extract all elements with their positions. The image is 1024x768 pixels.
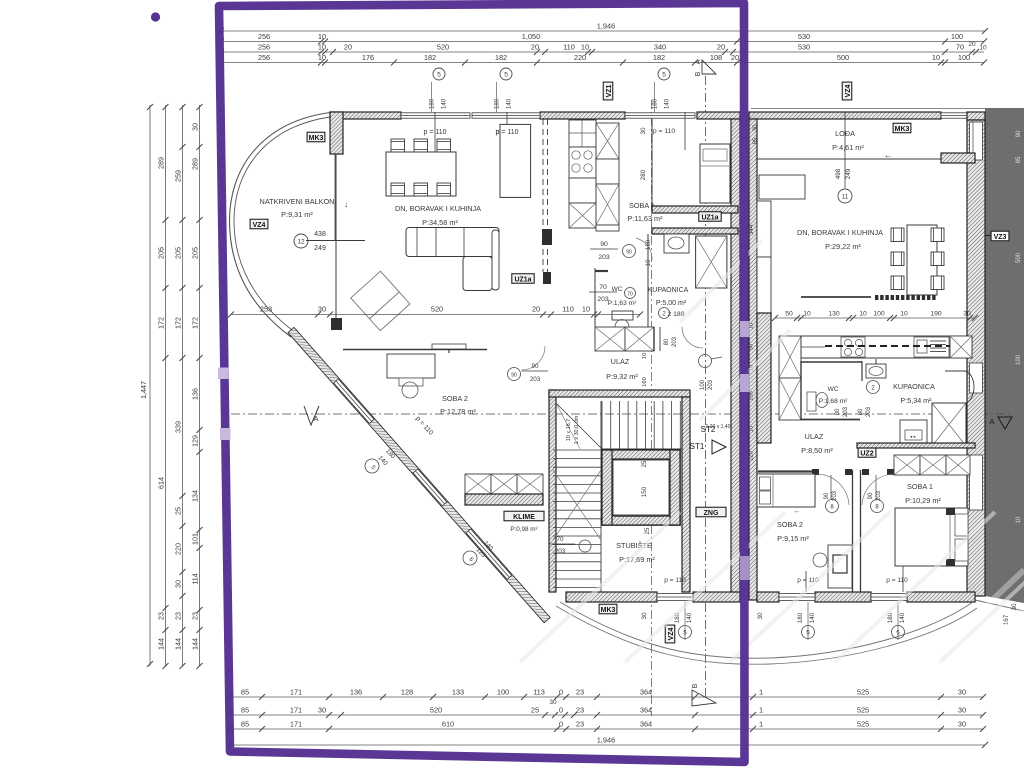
svg-text:203: 203 bbox=[555, 548, 566, 555]
svg-text:10: 10 bbox=[932, 53, 940, 62]
svg-text:1 x 30,0 dm: 1 x 30,0 dm bbox=[574, 415, 580, 444]
svg-text:P:9,15 m²: P:9,15 m² bbox=[777, 534, 809, 543]
svg-text:WC: WC bbox=[828, 386, 839, 393]
svg-text:128: 128 bbox=[401, 688, 413, 697]
svg-text:289: 289 bbox=[156, 157, 165, 169]
svg-text:30: 30 bbox=[640, 127, 647, 135]
svg-text:1: 1 bbox=[759, 688, 763, 697]
svg-text:253: 253 bbox=[260, 305, 272, 314]
svg-text:100: 100 bbox=[497, 688, 509, 697]
svg-text:203: 203 bbox=[672, 336, 678, 347]
svg-text:20: 20 bbox=[717, 43, 725, 52]
svg-text:p = 110: p = 110 bbox=[653, 128, 676, 135]
svg-text:10: 10 bbox=[749, 426, 755, 432]
svg-text:340: 340 bbox=[654, 43, 666, 52]
svg-text:140: 140 bbox=[899, 612, 906, 623]
svg-text:90: 90 bbox=[600, 241, 608, 248]
svg-text:70: 70 bbox=[556, 536, 564, 543]
svg-text:VZ4: VZ4 bbox=[253, 222, 266, 229]
svg-text:498: 498 bbox=[835, 168, 842, 179]
svg-text:80: 80 bbox=[664, 338, 670, 345]
svg-text:80: 80 bbox=[858, 408, 864, 415]
svg-text:30: 30 bbox=[1011, 603, 1018, 611]
svg-text:50: 50 bbox=[749, 344, 755, 350]
svg-text:1: 1 bbox=[759, 706, 763, 715]
svg-text:249: 249 bbox=[845, 168, 852, 179]
svg-text:203: 203 bbox=[598, 254, 610, 261]
svg-text:144: 144 bbox=[190, 638, 199, 650]
svg-text:108: 108 bbox=[710, 53, 722, 62]
svg-text:80: 80 bbox=[835, 408, 841, 415]
svg-text:B: B bbox=[695, 71, 702, 76]
svg-text:114: 114 bbox=[190, 573, 199, 584]
svg-text:180: 180 bbox=[652, 98, 659, 109]
svg-text:144: 144 bbox=[173, 638, 182, 650]
svg-text:ULAZ: ULAZ bbox=[611, 357, 630, 366]
svg-text:11: 11 bbox=[842, 194, 849, 201]
svg-text:A: A bbox=[989, 417, 994, 426]
svg-text:171: 171 bbox=[290, 688, 302, 697]
svg-text:289: 289 bbox=[190, 158, 199, 170]
svg-text:20: 20 bbox=[731, 53, 739, 62]
svg-text:610: 610 bbox=[442, 720, 454, 729]
svg-text:136: 136 bbox=[190, 388, 199, 400]
svg-text:ULAZ: ULAZ bbox=[805, 432, 824, 441]
svg-text:SOBA 2: SOBA 2 bbox=[442, 394, 468, 403]
svg-text:100: 100 bbox=[958, 53, 970, 62]
svg-text:30: 30 bbox=[958, 688, 966, 697]
svg-text:10: 10 bbox=[581, 43, 589, 52]
svg-text:113: 113 bbox=[533, 688, 545, 697]
svg-text:140: 140 bbox=[506, 98, 513, 109]
svg-text:364: 364 bbox=[640, 688, 652, 697]
svg-text:30: 30 bbox=[757, 612, 764, 620]
svg-text:30: 30 bbox=[190, 123, 199, 131]
svg-text:1,447: 1,447 bbox=[139, 381, 148, 399]
svg-text:50: 50 bbox=[785, 311, 793, 318]
svg-text:P:11,63 m²: P:11,63 m² bbox=[627, 214, 663, 223]
svg-text:171: 171 bbox=[290, 720, 302, 729]
svg-text:0: 0 bbox=[559, 720, 563, 729]
svg-text:129: 129 bbox=[190, 435, 199, 447]
svg-text:90: 90 bbox=[531, 363, 539, 370]
svg-text:P:5,34 m²: P:5,34 m² bbox=[900, 396, 932, 405]
svg-text:100: 100 bbox=[1016, 354, 1022, 365]
svg-text:182: 182 bbox=[424, 53, 436, 62]
svg-text:10: 10 bbox=[979, 45, 987, 52]
svg-text:10: 10 bbox=[646, 259, 652, 266]
svg-text:171: 171 bbox=[290, 706, 302, 715]
svg-text:120: 120 bbox=[749, 451, 755, 461]
svg-text:23: 23 bbox=[576, 688, 584, 697]
svg-text:10 x 16,7: 10 x 16,7 bbox=[566, 419, 572, 442]
svg-text:172: 172 bbox=[156, 317, 165, 329]
svg-text:10: 10 bbox=[900, 311, 908, 318]
svg-text:30: 30 bbox=[958, 720, 966, 729]
svg-text:70: 70 bbox=[956, 43, 964, 52]
svg-text:500: 500 bbox=[837, 53, 849, 62]
svg-text:MK3: MK3 bbox=[309, 135, 324, 142]
svg-text:30: 30 bbox=[753, 124, 759, 131]
svg-text:SOBA 1: SOBA 1 bbox=[907, 482, 933, 491]
svg-text:A: A bbox=[695, 59, 702, 64]
svg-text:280: 280 bbox=[640, 169, 647, 180]
svg-text:23: 23 bbox=[190, 612, 199, 620]
svg-text:100: 100 bbox=[951, 32, 963, 41]
svg-text:130: 130 bbox=[828, 311, 840, 318]
svg-text:1,946: 1,946 bbox=[597, 736, 616, 745]
svg-text:256: 256 bbox=[258, 53, 270, 62]
svg-text:150: 150 bbox=[641, 486, 648, 497]
svg-text:203: 203 bbox=[708, 379, 714, 390]
svg-text:259: 259 bbox=[173, 170, 182, 182]
svg-text:KUPAONICA: KUPAONICA bbox=[893, 382, 935, 391]
svg-text:176: 176 bbox=[362, 53, 374, 62]
svg-text:203: 203 bbox=[597, 296, 609, 303]
svg-text:B: B bbox=[692, 683, 699, 688]
svg-text:155: 155 bbox=[749, 391, 755, 401]
svg-text:NATKRIVENI BALKON: NATKRIVENI BALKON bbox=[260, 197, 335, 206]
svg-text:70: 70 bbox=[599, 284, 607, 291]
svg-text:VZ4: VZ4 bbox=[668, 627, 675, 640]
svg-text:KLIME: KLIME bbox=[513, 514, 535, 521]
svg-text:90: 90 bbox=[868, 492, 874, 499]
svg-text:P:10,29 m²: P:10,29 m² bbox=[905, 496, 941, 505]
svg-text:525: 525 bbox=[857, 688, 869, 697]
svg-text:5: 5 bbox=[662, 72, 666, 79]
svg-text:VZ1: VZ1 bbox=[606, 84, 613, 97]
svg-text:85: 85 bbox=[1016, 156, 1022, 163]
svg-text:10: 10 bbox=[642, 353, 648, 359]
svg-text:DN, BORAVAK I KUHINJA: DN, BORAVAK I KUHINJA bbox=[395, 204, 481, 213]
svg-text:ZNG: ZNG bbox=[704, 510, 719, 517]
svg-text:P:5,00 m²: P:5,00 m² bbox=[656, 300, 687, 307]
svg-text:UZ1a: UZ1a bbox=[514, 276, 531, 283]
svg-text:P:8,50 m²: P:8,50 m² bbox=[801, 446, 833, 455]
svg-text:220: 220 bbox=[574, 53, 586, 62]
svg-text:1,946: 1,946 bbox=[597, 22, 616, 31]
svg-text:30: 30 bbox=[958, 706, 966, 715]
svg-text:530: 530 bbox=[798, 43, 810, 52]
svg-text:203: 203 bbox=[843, 406, 849, 417]
svg-text:10: 10 bbox=[582, 305, 590, 314]
svg-text:90: 90 bbox=[824, 492, 830, 499]
svg-text:85: 85 bbox=[241, 688, 249, 697]
svg-text:140: 140 bbox=[809, 612, 816, 623]
svg-text:23: 23 bbox=[576, 706, 584, 715]
svg-text:UZ1a: UZ1a bbox=[701, 214, 718, 221]
svg-text:20: 20 bbox=[531, 43, 539, 52]
svg-text:180: 180 bbox=[797, 612, 804, 623]
svg-text:25: 25 bbox=[173, 507, 182, 515]
svg-text:30: 30 bbox=[963, 311, 971, 318]
svg-text:10: 10 bbox=[1016, 516, 1022, 523]
svg-text:344: 344 bbox=[748, 224, 755, 235]
svg-text:5: 5 bbox=[504, 72, 508, 79]
svg-text:364: 364 bbox=[640, 720, 652, 729]
svg-text:110: 110 bbox=[562, 305, 574, 314]
svg-text:70: 70 bbox=[627, 292, 633, 298]
svg-text:30: 30 bbox=[173, 580, 182, 588]
svg-text:10: 10 bbox=[803, 311, 811, 318]
svg-text:85: 85 bbox=[241, 720, 249, 729]
svg-text:203: 203 bbox=[530, 376, 541, 383]
svg-text:12: 12 bbox=[297, 239, 305, 246]
svg-text:5: 5 bbox=[437, 72, 441, 79]
svg-text:205: 205 bbox=[156, 247, 165, 259]
svg-text:↓: ↓ bbox=[344, 200, 348, 209]
svg-text:MK3: MK3 bbox=[895, 126, 910, 133]
svg-text:205: 205 bbox=[173, 247, 182, 259]
svg-text:P:9,31 m²: P:9,31 m² bbox=[281, 210, 313, 219]
svg-text:←: ← bbox=[794, 508, 801, 515]
svg-text:182: 182 bbox=[653, 53, 665, 62]
svg-text:23: 23 bbox=[173, 612, 182, 620]
svg-text:220: 220 bbox=[173, 543, 182, 555]
svg-text:256: 256 bbox=[258, 32, 270, 41]
svg-text:P:1,63 m²: P:1,63 m² bbox=[608, 300, 637, 307]
svg-text:525: 525 bbox=[857, 720, 869, 729]
svg-text:85: 85 bbox=[753, 137, 759, 144]
svg-text:90: 90 bbox=[626, 250, 632, 256]
svg-text:10: 10 bbox=[859, 311, 867, 318]
svg-text:134: 134 bbox=[190, 490, 199, 502]
svg-text:140: 140 bbox=[441, 98, 448, 109]
svg-text:90: 90 bbox=[1016, 130, 1022, 137]
svg-text:614: 614 bbox=[156, 477, 165, 489]
svg-text:140: 140 bbox=[664, 98, 671, 109]
svg-text:525: 525 bbox=[857, 706, 869, 715]
svg-text:2 180: 2 180 bbox=[667, 311, 684, 318]
svg-text:p = 110: p = 110 bbox=[664, 577, 686, 584]
svg-text:VZ4: VZ4 bbox=[845, 84, 852, 97]
svg-text:p = 110: p = 110 bbox=[886, 577, 908, 584]
svg-text:30: 30 bbox=[641, 612, 648, 620]
svg-text:VZ3: VZ3 bbox=[994, 234, 1007, 241]
svg-text:110: 110 bbox=[563, 43, 575, 52]
svg-text:◄►: ◄► bbox=[909, 434, 917, 439]
svg-text:100: 100 bbox=[873, 311, 885, 318]
svg-text:25: 25 bbox=[642, 460, 648, 467]
svg-text:520: 520 bbox=[437, 43, 449, 52]
svg-text:P:29,22 m²: P:29,22 m² bbox=[825, 242, 861, 251]
svg-text:101: 101 bbox=[190, 533, 199, 545]
svg-text:30: 30 bbox=[318, 706, 326, 715]
svg-text:85: 85 bbox=[241, 706, 249, 715]
svg-text:0: 0 bbox=[559, 706, 563, 715]
svg-text:180: 180 bbox=[494, 98, 501, 109]
svg-text:P:0,98 m²: P:0,98 m² bbox=[510, 526, 537, 533]
svg-text:10: 10 bbox=[318, 53, 326, 62]
svg-text:520: 520 bbox=[431, 305, 443, 314]
svg-text:180: 180 bbox=[429, 98, 436, 109]
svg-text:133: 133 bbox=[452, 688, 464, 697]
svg-text:520: 520 bbox=[430, 706, 442, 715]
svg-text:SOBA 2: SOBA 2 bbox=[777, 520, 803, 529]
svg-text:256: 256 bbox=[258, 43, 270, 52]
svg-text:MK3: MK3 bbox=[601, 607, 616, 614]
svg-text:1,050: 1,050 bbox=[522, 32, 541, 41]
svg-text:20: 20 bbox=[968, 41, 976, 48]
svg-text:172: 172 bbox=[190, 317, 199, 329]
svg-text:136: 136 bbox=[350, 688, 362, 697]
svg-text:UZ2: UZ2 bbox=[860, 450, 873, 457]
svg-text:1,20 x 1,40: 1,20 x 1,40 bbox=[706, 424, 731, 430]
svg-text:P:9,32 m²: P:9,32 m² bbox=[606, 372, 638, 381]
svg-text:P:4,61 m²: P:4,61 m² bbox=[832, 143, 864, 152]
svg-text:KUPAONICA: KUPAONICA bbox=[648, 287, 689, 294]
svg-text:364: 364 bbox=[640, 706, 652, 715]
svg-text:p = 110: p = 110 bbox=[495, 129, 518, 136]
svg-text:DN, BORAVAK I KUHINJA: DN, BORAVAK I KUHINJA bbox=[797, 228, 883, 237]
svg-text:203: 203 bbox=[876, 490, 882, 501]
svg-text:500: 500 bbox=[1016, 252, 1022, 263]
svg-text:25: 25 bbox=[531, 706, 539, 715]
svg-text:160: 160 bbox=[642, 377, 648, 387]
svg-text:30: 30 bbox=[549, 699, 557, 706]
svg-text:339: 339 bbox=[173, 421, 182, 433]
svg-text:100: 100 bbox=[700, 379, 706, 390]
svg-text:1: 1 bbox=[759, 720, 763, 729]
svg-text:172: 172 bbox=[173, 317, 182, 329]
svg-text:20: 20 bbox=[344, 43, 352, 52]
svg-text:205: 205 bbox=[190, 247, 199, 259]
svg-text:203: 203 bbox=[832, 490, 838, 501]
svg-text:P:12,78 m²: P:12,78 m² bbox=[440, 407, 476, 416]
svg-text:182: 182 bbox=[495, 53, 507, 62]
svg-text:140: 140 bbox=[686, 612, 693, 623]
svg-text:25: 25 bbox=[645, 527, 651, 534]
svg-text:10: 10 bbox=[318, 32, 326, 41]
svg-text:30: 30 bbox=[318, 305, 326, 314]
svg-text:438: 438 bbox=[314, 231, 326, 238]
svg-text:530: 530 bbox=[798, 32, 810, 41]
svg-text:P:1,68 m²: P:1,68 m² bbox=[819, 398, 848, 405]
svg-text:203: 203 bbox=[866, 406, 872, 417]
svg-text:90: 90 bbox=[511, 373, 517, 379]
svg-text:ST1: ST1 bbox=[690, 442, 705, 451]
svg-text:23: 23 bbox=[576, 720, 584, 729]
svg-text:249: 249 bbox=[314, 245, 326, 252]
svg-text:10: 10 bbox=[318, 43, 326, 52]
svg-text:P:34,58 m²: P:34,58 m² bbox=[422, 218, 458, 227]
svg-text:SOBA 1: SOBA 1 bbox=[629, 201, 655, 210]
svg-text:144: 144 bbox=[156, 638, 165, 650]
svg-text:0: 0 bbox=[559, 688, 563, 697]
svg-text:23: 23 bbox=[156, 612, 165, 620]
svg-text:190: 190 bbox=[930, 311, 942, 318]
svg-text:20: 20 bbox=[532, 305, 540, 314]
